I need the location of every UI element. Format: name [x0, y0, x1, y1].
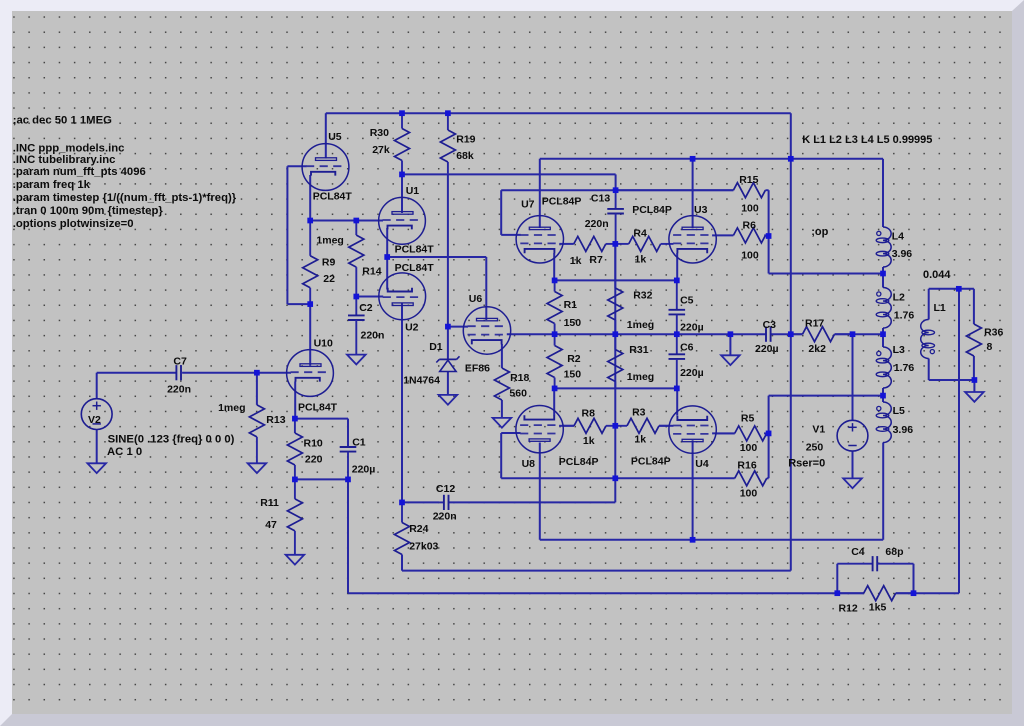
wire L4 bottom lead — [882, 267, 884, 274]
wire U3 cathode lead — [676, 253, 678, 280]
svg-text:560: 560 — [509, 388, 527, 400]
wire C4 right vert — [913, 564, 915, 594]
svg-text:V1: V1 — [812, 423, 825, 435]
wire R9 bottom row — [287, 303, 310, 305]
junction B+ plate row — [788, 156, 794, 162]
junction R8 R3 — [612, 423, 618, 429]
wire D1 top lead — [447, 173, 449, 359]
wire U5 grid exit — [287, 165, 306, 167]
wire R13 top lead — [256, 373, 258, 405]
junction R7 R4 C13 — [612, 241, 618, 247]
inductor L3 — [876, 344, 914, 388]
svg-text:L5: L5 — [893, 405, 905, 417]
junction gnd stub — [728, 331, 734, 337]
svg-text:.tran 0 100m 90m {timestep}: .tran 0 100m 90m {timestep} — [13, 205, 164, 217]
svg-text:1k: 1k — [635, 254, 647, 266]
junction C6 bottom — [674, 386, 680, 392]
wire C12 stub down — [614, 478, 616, 502]
svg-text:K L1 L2 L3 L4 L5 0.99995: K L1 L2 L3 L4 L5 0.99995 — [802, 134, 932, 146]
junction R2 bottom — [552, 386, 558, 392]
wire R6 right lead — [764, 234, 768, 236]
wire U7 plate lead — [539, 159, 541, 228]
wire L5 top lead — [882, 396, 884, 402]
pentode U6 EF86 — [463, 293, 510, 374]
wire R6 lead from U3 — [712, 234, 733, 236]
wire U4 plate lead — [692, 440, 694, 540]
svg-text:U8: U8 — [522, 458, 536, 470]
voltage source V2 — [81, 399, 234, 458]
junction top bus R30 — [399, 110, 405, 116]
svg-text:U6: U6 — [469, 293, 483, 305]
svg-text:0.044: 0.044 — [923, 269, 951, 281]
wire U2 plate lead — [401, 304, 403, 503]
junction R32 mid bus — [612, 331, 618, 337]
wire U6 plate lead — [485, 257, 487, 320]
svg-text:L4: L4 — [892, 230, 904, 242]
svg-text:L1: L1 — [934, 302, 946, 314]
wire row L3 bottom — [769, 395, 883, 397]
junction R14 bottom — [353, 294, 359, 300]
wire U7 grid box left — [500, 190, 502, 235]
wire U5 cathode lead — [309, 175, 311, 221]
resistor R9 — [303, 221, 336, 305]
inductor L4 — [876, 227, 912, 267]
svg-text:68p: 68p — [885, 546, 903, 558]
wire R5R16 right vert — [768, 396, 770, 479]
svg-text:R9: R9 — [322, 256, 336, 268]
wire V2 top lead — [96, 373, 98, 399]
wire V1 top lead — [852, 334, 854, 420]
svg-text:100: 100 — [741, 250, 759, 262]
resistor R24 — [395, 502, 439, 570]
svg-text:R17: R17 — [805, 317, 824, 329]
wire R30 bottom row — [402, 173, 616, 175]
svg-text:.param freq 1k: .param freq 1k — [13, 179, 91, 191]
wire U8 plate lead — [539, 443, 541, 540]
wire R8 lead from U8 — [559, 425, 574, 427]
resistor R17 — [791, 317, 853, 355]
resistor R30 — [370, 113, 410, 174]
wire L5 bottom vert — [882, 443, 884, 540]
junction R5 right — [766, 431, 772, 437]
wire C1 down to rail — [347, 479, 349, 593]
spice directive text block — [13, 115, 237, 230]
ground R18 — [493, 418, 512, 428]
ground D1 — [439, 395, 458, 405]
wire R7 lead from U7 — [559, 243, 574, 245]
junction L2 L3 — [880, 331, 886, 337]
wire row R10 C1 top — [295, 418, 348, 420]
wire U2plate to C12 — [402, 501, 439, 503]
wire plate row upper — [540, 158, 883, 160]
junction U1 cathode — [384, 254, 390, 260]
resistor R6 — [733, 219, 765, 261]
svg-text:V2: V2 — [88, 414, 101, 426]
svg-text:R14: R14 — [362, 265, 381, 277]
svg-text:U1: U1 — [406, 185, 420, 197]
svg-text:1.76: 1.76 — [894, 309, 915, 321]
svg-text:R15: R15 — [739, 174, 758, 186]
wire grid row U1 — [310, 220, 383, 222]
resistor R11 — [260, 479, 302, 554]
ground R11 — [286, 555, 305, 565]
wire R18 top lead — [501, 344, 503, 368]
wire V2 bottom lead — [96, 430, 98, 464]
junction V1 top — [850, 331, 856, 337]
junction C5 C6 mid — [674, 331, 680, 337]
wire C7 to U10 grid — [183, 372, 291, 374]
svg-text:U4: U4 — [695, 458, 709, 470]
junction B+ mid bus — [788, 331, 794, 337]
wire mid bus to V1 — [835, 333, 884, 335]
ground C2 — [347, 355, 366, 365]
junction rail C4 right — [911, 590, 917, 596]
svg-text:R11: R11 — [260, 497, 279, 509]
svg-text:R16: R16 — [737, 459, 756, 471]
svg-text:U10: U10 — [314, 338, 333, 350]
wire L2 bottom lead — [882, 328, 884, 334]
wire L1 left bottom — [928, 359, 930, 381]
svg-text:C6: C6 — [680, 342, 694, 354]
svg-text:R19: R19 — [456, 133, 475, 145]
svg-text:220n: 220n — [361, 329, 385, 341]
wire R32R31 vertical — [614, 244, 616, 478]
wire U8 cathode lead — [553, 388, 555, 415]
resistor R15 — [616, 174, 769, 215]
svg-text:8: 8 — [987, 341, 993, 353]
wire L3 top lead — [882, 334, 884, 347]
svg-text:R3: R3 — [632, 407, 646, 419]
svg-text:150: 150 — [564, 368, 582, 380]
resistor R36 — [966, 324, 1003, 356]
resistor R32 — [608, 244, 654, 334]
svg-text:R10: R10 — [304, 437, 323, 449]
svg-text:.INC tubelibrary.inc: .INC tubelibrary.inc — [13, 154, 116, 166]
triode U5 — [302, 131, 352, 203]
inductor L2 — [876, 288, 914, 329]
resistor R1 — [547, 280, 581, 334]
svg-text:.param timestep {1/((num_fft_p: .param timestep {1/((num_fft_pts-1)*freq… — [13, 192, 237, 204]
junction rail C4 left — [834, 590, 840, 596]
svg-text:C12: C12 — [436, 483, 455, 495]
junction R6 right — [766, 233, 772, 239]
wire R5 right lead — [764, 432, 769, 434]
resistor R12 — [837, 586, 913, 615]
voltage source V1 — [788, 420, 868, 469]
resistor R5 — [716, 413, 769, 454]
svg-text:1k: 1k — [570, 255, 582, 267]
svg-text:PCL84P: PCL84P — [559, 456, 599, 468]
svg-text:PCL84T: PCL84T — [298, 401, 338, 413]
junction U5 cathode row — [307, 218, 313, 224]
svg-text:C13: C13 — [591, 192, 610, 204]
svg-text:U7: U7 — [521, 199, 535, 211]
svg-text:220n: 220n — [433, 510, 457, 522]
capacitor C4 — [837, 546, 913, 571]
resistor R14 — [316, 221, 381, 297]
wire R36 top lead — [973, 289, 975, 324]
junction C13 top — [613, 187, 619, 193]
svg-text:R4: R4 — [633, 227, 647, 239]
svg-text:D1: D1 — [429, 341, 443, 353]
junction U6 grid D1 — [445, 324, 451, 330]
pentode U3 — [632, 204, 716, 263]
wire U4 cathode lead — [676, 388, 678, 415]
inductor L1 — [921, 302, 946, 359]
wire R36 gnd lead — [973, 380, 975, 392]
wire cath row U8-C6 — [555, 387, 677, 389]
svg-text:PCL84T: PCL84T — [395, 262, 435, 274]
wire U2 cathode lead — [386, 257, 388, 290]
svg-text:1meg: 1meg — [316, 234, 343, 246]
svg-text:220n: 220n — [585, 218, 609, 230]
junction L3 bottom — [880, 393, 886, 399]
svg-text:2k2: 2k2 — [808, 343, 826, 355]
wire row y478 — [501, 477, 735, 479]
svg-text:PCL84T: PCL84T — [395, 243, 435, 255]
junction top bus R19 — [445, 110, 451, 116]
svg-text:.INC ppp_models.inc: .INC ppp_models.inc — [13, 143, 125, 155]
pentode U8 inverted — [516, 406, 599, 471]
wire U8 grid exit — [501, 432, 520, 434]
wire feedback row y570 — [402, 570, 791, 572]
svg-text:R2: R2 — [567, 353, 581, 365]
wire R15 right corner — [768, 190, 770, 236]
triode U1 — [379, 185, 435, 255]
svg-text:1k: 1k — [583, 435, 595, 447]
svg-text:;ac dec 50 1 1MEG: ;ac dec 50 1 1MEG — [13, 115, 112, 127]
wire top bus — [326, 112, 791, 114]
wire U7 grid stub — [501, 234, 521, 236]
wire U8 grid vert — [500, 433, 502, 478]
capacitor C5 — [669, 280, 704, 334]
svg-text:;op: ;op — [811, 226, 828, 238]
wire L4 top lead — [882, 159, 884, 227]
diode D1 zener — [403, 341, 459, 386]
wire bottom rail — [348, 592, 864, 594]
wire row R10 C1 bottom — [295, 478, 348, 480]
svg-text:27k03: 27k03 — [409, 540, 438, 552]
resistor R10 — [287, 419, 323, 480]
svg-text:R30: R30 — [370, 127, 389, 139]
wire L1 left top — [928, 289, 930, 320]
wire V2 to C7 — [97, 372, 177, 374]
svg-text:R12: R12 — [839, 603, 858, 615]
wire gnd stub mid bus — [729, 334, 731, 355]
wire R36 bottom lead — [973, 356, 975, 380]
wire row U1cath to U6 — [387, 256, 486, 258]
wire R5 lead from U4 — [712, 432, 735, 434]
wire mid bus — [507, 333, 766, 335]
resistor R16 — [735, 459, 767, 499]
svg-text:22: 22 — [323, 273, 335, 285]
triode U10 — [287, 338, 338, 414]
wire D1 bottom lead — [447, 372, 449, 395]
wire drop to C13 node — [615, 174, 617, 190]
resistor R3 — [615, 407, 669, 446]
svg-text:250: 250 — [806, 442, 824, 454]
svg-text:220n: 220n — [167, 384, 191, 396]
wire feedback row y190 — [501, 189, 733, 191]
svg-text:R24: R24 — [409, 523, 428, 535]
wire U7 cathode lead — [553, 253, 555, 280]
triode U2 inverted — [379, 262, 434, 334]
svg-text:3.96: 3.96 — [892, 248, 913, 260]
wire mid bus right of C3 — [771, 333, 803, 335]
wire bottom rail right — [896, 592, 959, 594]
svg-text:R32: R32 — [633, 290, 652, 302]
svg-text:R18: R18 — [510, 372, 529, 384]
wire rail up right — [958, 289, 960, 593]
svg-text:C1: C1 — [352, 437, 366, 449]
svg-text:R1: R1 — [564, 299, 578, 311]
svg-text:47: 47 — [265, 519, 277, 531]
ground V1 — [843, 478, 862, 488]
junction L1 top — [956, 286, 962, 292]
wire U10 cathode lead — [294, 382, 296, 419]
wire R6R15 corner vert — [768, 236, 770, 274]
wire C12 to stub — [449, 501, 616, 503]
wire row L4 bottom — [769, 273, 883, 275]
svg-text:R5: R5 — [741, 413, 755, 425]
svg-text:L3: L3 — [893, 344, 905, 356]
ground mid bus — [721, 355, 740, 365]
junction R10 bottom — [292, 477, 298, 483]
wire U1 cathode lead — [386, 228, 388, 257]
resistor R8 — [563, 407, 615, 447]
svg-text:Rser=0: Rser=0 — [788, 457, 825, 469]
junction C12 stub — [612, 475, 618, 481]
wire L2 top lead — [882, 274, 884, 288]
capacitor C7 — [167, 355, 191, 395]
svg-text:1meg: 1meg — [627, 371, 654, 383]
wire L1 top row — [929, 288, 974, 290]
svg-text:220: 220 — [305, 454, 323, 466]
pentode U4 inverted — [631, 406, 716, 470]
svg-text:220µ: 220µ — [755, 343, 779, 355]
wire U5 plate lead — [325, 113, 327, 158]
junction R10 top — [292, 416, 298, 422]
svg-text:PCL84P: PCL84P — [632, 204, 672, 216]
svg-text:C5: C5 — [680, 295, 694, 307]
wire C4 left vert — [836, 564, 838, 594]
svg-text:68k: 68k — [456, 150, 474, 162]
wire R3 lead to U4 — [659, 425, 674, 427]
junction U3 plate — [690, 156, 696, 162]
wire B+ vertical right — [790, 113, 792, 570]
svg-text:100: 100 — [740, 442, 758, 454]
svg-text:.param num_fft_pts 4096: .param num_fft_pts 4096 — [13, 166, 146, 178]
svg-text:1.76: 1.76 — [894, 362, 915, 374]
svg-text:1k: 1k — [634, 434, 646, 446]
svg-text:C4: C4 — [851, 546, 865, 558]
junction R9 bottom — [307, 301, 313, 307]
wire plate rail bottom — [540, 539, 883, 541]
svg-text:PCL84P: PCL84P — [631, 455, 671, 467]
capacitor C2 — [348, 297, 384, 356]
junction U7 cathode R1 — [552, 278, 558, 284]
svg-text:220µ: 220µ — [680, 321, 704, 333]
pentode U7 — [516, 195, 581, 263]
capacitor C12 — [433, 483, 457, 522]
junction R1 mid bus — [552, 331, 558, 337]
svg-text:C2: C2 — [359, 302, 373, 314]
junction C5 top — [674, 278, 680, 284]
svg-text:U2: U2 — [405, 322, 419, 334]
capacitor C6 — [669, 334, 704, 388]
wire U6 grid exit row — [448, 326, 468, 328]
junction C12 left — [399, 500, 405, 506]
svg-text:PCL84P: PCL84P — [542, 195, 582, 207]
capacitor C3 — [755, 319, 779, 355]
svg-text:R31: R31 — [629, 344, 648, 356]
svg-text:1meg: 1meg — [627, 319, 654, 331]
svg-text:U3: U3 — [694, 204, 708, 216]
svg-text:U5: U5 — [328, 131, 342, 143]
resistor R18 — [494, 368, 529, 400]
svg-text:PCL84T: PCL84T — [313, 190, 353, 202]
svg-text:C3: C3 — [763, 319, 777, 331]
svg-text:3.96: 3.96 — [893, 424, 914, 436]
svg-text:R6: R6 — [743, 219, 757, 231]
resistor R19 — [440, 113, 475, 173]
wire R16 right corner — [767, 477, 769, 479]
wire U3 plate lead — [692, 159, 694, 228]
svg-text:100: 100 — [740, 487, 758, 499]
svg-text:220µ: 220µ — [680, 367, 704, 379]
svg-text:R7: R7 — [589, 254, 603, 266]
wire C1 top lead — [347, 419, 349, 447]
capacitor C13 — [585, 190, 624, 244]
wire cath row U7-C5 — [555, 279, 677, 281]
resistor R13 — [218, 402, 286, 463]
junction C7 R13 — [254, 370, 260, 376]
wire R24 bottom corner — [401, 555, 403, 571]
ground R13 — [248, 463, 267, 473]
svg-text:SINE(0 .123 {freq} 0 0 0): SINE(0 .123 {freq} 0 0 0) — [108, 434, 235, 446]
resistor R31 — [608, 334, 654, 388]
junction U4 plate rail — [690, 537, 696, 543]
resistor R4 — [615, 227, 673, 265]
svg-text:R36: R36 — [984, 327, 1003, 339]
wire L1 bottom row — [929, 379, 975, 381]
wire L3 bottom lead — [882, 388, 884, 396]
junction R14 top — [353, 218, 359, 224]
svg-text:C7: C7 — [173, 355, 187, 367]
inductor L5 — [876, 402, 913, 443]
ground R36 — [965, 392, 984, 402]
junction R30 bottom — [399, 172, 405, 178]
wire R18 bottom lead — [501, 400, 503, 418]
capacitor C1 — [340, 437, 376, 480]
svg-text:100: 100 — [741, 203, 759, 215]
resistor R2 — [547, 334, 581, 388]
wire R14 grid row U2 — [356, 296, 383, 298]
wire U1 plate lead — [401, 174, 403, 213]
resistor R7 — [570, 236, 616, 267]
junction R36 bottom — [972, 377, 978, 383]
svg-text:R8: R8 — [582, 407, 596, 419]
svg-text:L2: L2 — [893, 292, 905, 304]
wire U10 plate lead — [309, 304, 311, 366]
svg-text:.options plotwinsize=0: .options plotwinsize=0 — [13, 218, 134, 230]
ground V2 — [87, 463, 106, 473]
junction L4 bottom — [880, 271, 886, 277]
svg-text:220µ: 220µ — [352, 463, 376, 475]
svg-text:150: 150 — [564, 317, 582, 329]
svg-text:1N4764: 1N4764 — [403, 374, 440, 386]
svg-text:AC 1 0: AC 1 0 — [107, 446, 142, 458]
